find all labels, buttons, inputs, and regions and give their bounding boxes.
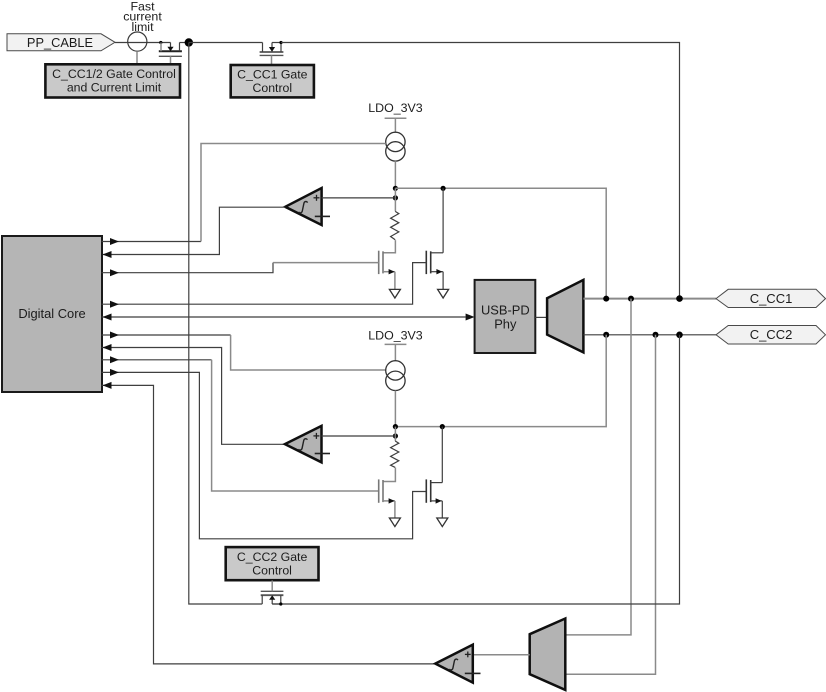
port C_CC1	[716, 289, 826, 307]
wire MX2 output to U3	[473, 654, 530, 656]
wire core pin5 to USB-PD Phy	[102, 316, 466, 318]
node CC1-b	[628, 296, 634, 302]
ground M2	[438, 289, 449, 298]
wire node D to resistor R2	[394, 427, 396, 441]
wire core pin4 to M2 gate	[102, 263, 427, 305]
mux MX1	[547, 280, 583, 353]
svg-text:PP_CABLE: PP_CABLE	[27, 35, 93, 50]
op-amp U1	[285, 188, 330, 225]
current source I1	[386, 132, 405, 161]
resistor R2	[391, 441, 399, 467]
wire node A to Q2	[189, 42, 263, 44]
node B2 (op-amp tap)	[393, 195, 398, 200]
node E (M4 drain tap)	[440, 424, 445, 429]
supply tick LDO_3V3 bottom	[385, 344, 407, 360]
node CC2-c	[676, 332, 683, 339]
port C_CC2	[716, 326, 826, 345]
wire CC1-b down to mux MX2	[565, 299, 631, 635]
svg-text:C_CC2: C_CC2	[750, 327, 793, 342]
op-amp U3	[435, 645, 480, 683]
wire node E down to M4	[441, 427, 443, 483]
wire core pin1 to I1 control	[102, 241, 202, 243]
wire CC2-b down to mux MX2	[565, 335, 655, 674]
wire core pin6 to I2 control	[102, 334, 231, 336]
wire CC2-c down to C_CC2 trunk	[272, 335, 679, 604]
wire core pin10 from U3 output	[102, 385, 436, 664]
wire Q2 drain to right vertical	[281, 43, 680, 299]
svg-text:USB-PD: USB-PD	[481, 302, 530, 317]
box Digital Core	[2, 236, 102, 392]
svg-text:LDO_3V3: LDO_3V3	[368, 101, 423, 115]
wire Phy to mux M5	[535, 316, 547, 318]
wire I1 to node B	[394, 161, 396, 188]
wire core pin9 to M4 gate	[102, 372, 427, 538]
transistor Q1 (pass FET)	[159, 43, 182, 65]
ground M1	[389, 289, 400, 298]
wire U1 output to Digital Core	[102, 207, 286, 254]
current source I2	[386, 361, 405, 391]
wire CC2-a down to node D	[395, 335, 606, 427]
svg-text:Phy: Phy	[494, 316, 517, 331]
wire CL1 control stem	[136, 51, 138, 64]
wire C_CC2 line	[583, 334, 716, 336]
ground M3	[389, 518, 400, 527]
node at Q1 source	[159, 41, 162, 44]
resistor R1	[391, 211, 399, 239]
transistor Q2 (C_CC1 pass FET)	[260, 41, 284, 65]
svg-text:C_CC1 Gate: C_CC1 Gate	[237, 68, 308, 82]
svg-text:Control: Control	[252, 564, 292, 578]
wire core pin7 from U2 output	[102, 348, 285, 445]
svg-text:C_CC1: C_CC1	[750, 291, 793, 306]
wire Q1 drain to node A	[180, 42, 189, 44]
wire node B to M2 drain and CC1 sense	[395, 188, 606, 298]
current limiter CL1 (circle)	[128, 32, 147, 51]
transistor M3	[379, 479, 395, 518]
svg-text:LDO_3V3: LDO_3V3	[368, 329, 423, 343]
wire core pin8 to M3 gate	[102, 359, 212, 361]
wire node C down to M2	[442, 188, 444, 253]
svg-text:Control: Control	[252, 81, 292, 95]
transistor M2	[426, 251, 443, 290]
node CC1-a	[603, 296, 609, 302]
transistor M4	[426, 479, 442, 518]
wire PP_CABLE to current limiter	[115, 42, 171, 44]
op-amp U2	[285, 426, 330, 462]
node A (PP_CABLE net junction)	[185, 38, 193, 46]
node CC2-b	[653, 332, 659, 338]
ground M4	[437, 518, 448, 527]
wire U1 + input	[322, 197, 396, 199]
wire U2 + input	[322, 435, 396, 437]
node B (top RC node)	[393, 186, 398, 191]
wire node B to resistor R1	[394, 188, 396, 211]
port PP_CABLE	[7, 34, 115, 51]
svg-text:C_CC1/2 Gate Control: C_CC1/2 Gate Control	[52, 67, 176, 81]
box C_CC1 Gate Control	[231, 65, 314, 97]
transistor M1	[379, 251, 395, 290]
node CC1-c	[676, 295, 683, 302]
supply tick LDO_3V3 top	[385, 118, 407, 132]
wire R2 to M3 drain	[383, 468, 395, 482]
wire core pin3 to M1 gate	[102, 263, 274, 273]
wire C_CC1 line	[583, 298, 716, 300]
svg-text:and Current Limit: and Current Limit	[67, 81, 162, 95]
svg-text:Digital Core: Digital Core	[18, 306, 85, 321]
transistor Q3 (C_CC2 pass FET)	[261, 581, 284, 606]
svg-text:C_CC2 Gate: C_CC2 Gate	[237, 550, 308, 564]
node D2 (op-amp tap)	[393, 433, 398, 438]
node D (bottom RC node)	[393, 424, 398, 429]
wire node A bus down to C_CC2 trunk	[189, 43, 262, 605]
wire I2 to node D	[394, 391, 396, 427]
box USB-PD Phy	[475, 280, 536, 353]
mux MX2	[530, 619, 566, 690]
box C_CC2 Gate Control	[226, 547, 319, 580]
box C_CC1/2 Gate Control and Current Limit	[45, 64, 180, 97]
wire R1 to M1 drain	[383, 240, 395, 253]
node C (M2 drain tap)	[441, 186, 446, 191]
node CC2-a	[603, 332, 609, 338]
